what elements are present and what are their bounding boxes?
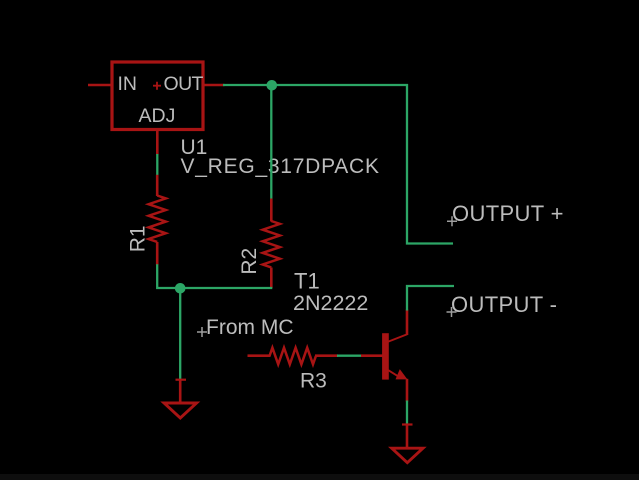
net label OUTPUT + [447, 201, 564, 226]
wire junction down to ground [179, 288, 181, 380]
U1 pin IN [88, 73, 137, 95]
wire collector up to OUTPUT - [407, 286, 454, 311]
voltage regulator U1 body [112, 62, 203, 130]
svg-text:R1: R1 [126, 225, 149, 252]
net label OUTPUT - [447, 292, 558, 317]
svg-text:OUTPUT -: OUTPUT - [451, 292, 557, 317]
ground [392, 425, 423, 463]
U1 pin ADJ [139, 105, 176, 155]
svg-text:From MC: From MC [206, 316, 294, 339]
svg-text:2N2222: 2N2222 [293, 291, 368, 315]
junction [267, 80, 278, 91]
svg-text:IN: IN [118, 73, 138, 95]
svg-text:ADJ: ADJ [139, 105, 176, 127]
svg-text:OUTPUT +: OUTPUT + [452, 201, 564, 226]
net label From MC [197, 316, 294, 339]
transistor T1 [361, 310, 407, 402]
svg-text:T1: T1 [294, 269, 320, 294]
bottom edge strip [0, 474, 639, 480]
resistor R1 [149, 175, 166, 265]
svg-text:R2: R2 [238, 248, 261, 275]
svg-text:OUT: OUT [164, 73, 204, 95]
wire down right side to OUTPUT + [407, 84, 453, 244]
svg-text:V_REG_317DPACK: V_REG_317DPACK [181, 155, 380, 178]
wire OUT to junction and right [223, 84, 408, 86]
resistor R3 [248, 348, 339, 365]
wire bottom horizontal R1 to R2 [157, 264, 272, 288]
U1 pin OUT [153, 73, 225, 95]
resistor R2 [263, 199, 280, 289]
wire ADJ segment [156, 154, 158, 175]
svg-text:R3: R3 [300, 370, 327, 393]
wire emitter to ground [406, 401, 408, 426]
wire R3 to base [337, 355, 362, 357]
junction [175, 283, 186, 294]
wire junction down to R2 [270, 85, 272, 200]
ground [164, 380, 197, 418]
